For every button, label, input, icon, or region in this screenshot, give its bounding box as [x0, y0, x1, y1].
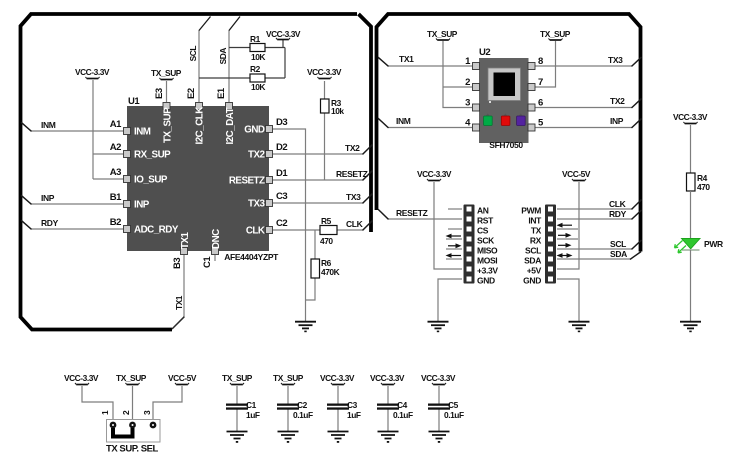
- svg-text:R1: R1: [250, 34, 261, 44]
- svg-text:TX2: TX2: [248, 150, 266, 161]
- svg-text:SDA: SDA: [218, 48, 228, 65]
- pin C2 CLK: [266, 227, 273, 234]
- wire TX_SUP to E3: [166, 81, 168, 102]
- svg-text:INM: INM: [396, 116, 411, 126]
- svg-text:VCC-3.3V: VCC-3.3V: [417, 169, 452, 179]
- wire header1 GND to ground: [438, 279, 462, 321]
- svg-text:7: 7: [538, 77, 543, 88]
- capacitor C4 0.1uF: [370, 373, 413, 443]
- wire GND D3 to ground: [273, 129, 306, 321]
- svg-text:U1: U1: [128, 96, 140, 107]
- svg-text:470: 470: [320, 236, 333, 246]
- node U2 photodiode window: [488, 68, 521, 103]
- svg-text:D1: D1: [276, 168, 288, 179]
- ground (PWR led): [680, 322, 701, 333]
- wire TX_SUP to U2 pins 2,3: [443, 41, 472, 108]
- svg-text:I2C_CLK: I2C_CLK: [195, 107, 206, 145]
- svg-text:RESETZ: RESETZ: [396, 208, 428, 218]
- svg-text:TX_SUP: TX_SUP: [116, 373, 147, 383]
- svg-text:RESETZ: RESETZ: [336, 169, 368, 179]
- pin 6: [528, 104, 535, 111]
- svg-text:8: 8: [538, 56, 543, 67]
- svg-text:0.1uF: 0.1uF: [444, 410, 464, 420]
- wire INM (blob to U2 pin4): [379, 119, 472, 128]
- svg-text:0.1uF: 0.1uF: [293, 410, 313, 420]
- svg-text:E2: E2: [186, 88, 197, 99]
- pin D2 TX2: [266, 151, 273, 158]
- svg-text:B1: B1: [110, 192, 122, 203]
- pin 7: [528, 84, 535, 91]
- wire TX1 (blob to U2 pin1): [379, 58, 472, 66]
- wire R3 stem VCC to RESETZ net: [324, 81, 326, 180]
- svg-text:C3: C3: [347, 400, 358, 410]
- pin E3 TX_SUP: [163, 103, 170, 110]
- svg-text:SFH7050: SFH7050: [489, 140, 523, 150]
- svg-text:MOSI: MOSI: [477, 256, 497, 266]
- wire RESETZ (U1 D1 to blob): [273, 171, 372, 180]
- svg-text:INP: INP: [610, 116, 624, 126]
- power flag VCC-3.3V (U1 left): [75, 67, 110, 79]
- svg-text:0.1uF: 0.1uF: [393, 410, 413, 420]
- power flag VCC-3.3V (PWR led): [673, 112, 708, 124]
- svg-text:+5V: +5V: [527, 266, 542, 276]
- wire INM (blob to U1 A1): [22, 123, 123, 131]
- svg-text:VCC-3.3V: VCC-3.3V: [370, 373, 405, 383]
- power flag VCC-3.3V (header left): [417, 169, 452, 181]
- svg-text:TX_SUP: TX_SUP: [163, 107, 174, 143]
- wire RESETZ (blob to header RST): [379, 210, 462, 219]
- capacitor C3 1uF: [320, 373, 361, 443]
- wire TX_SUP to jumper pin2: [132, 386, 134, 421]
- capacitor C5 0.1uF: [421, 373, 464, 443]
- pin 4: [473, 124, 480, 131]
- wire TX3 (U1 C3 to blob): [273, 194, 372, 203]
- svg-text:C2: C2: [276, 218, 287, 229]
- jumper TX SUP SEL: [100, 410, 160, 455]
- pin B2 ADC_RDY: [124, 226, 131, 233]
- svg-text:VCC-3.3V: VCC-3.3V: [307, 67, 342, 77]
- svg-text:CS: CS: [477, 226, 489, 236]
- wire INP (blob to U1 B1): [22, 196, 123, 204]
- power flag TX_SUP (U2 left): [427, 29, 458, 40]
- wire R4 to LED: [690, 191, 692, 238]
- svg-text:RX: RX: [530, 236, 542, 246]
- svg-text:VCC-3.3V: VCC-3.3V: [421, 373, 456, 383]
- wire CS stub: [448, 228, 462, 230]
- wire SDA net (blob top to E1): [228, 30, 230, 102]
- power flag VCC-5V: [562, 169, 591, 181]
- wire header2 GND to ground: [557, 279, 579, 321]
- pin B1 INP: [124, 201, 131, 208]
- svg-text:A1: A1: [110, 119, 122, 130]
- svg-text:ADC_RDY: ADC_RDY: [134, 225, 179, 236]
- svg-text:VCC-3.3V: VCC-3.3V: [266, 29, 301, 39]
- op-amp U1 AFE4404 body: [127, 96, 279, 262]
- svg-text:AFE4404YZPT: AFE4404YZPT: [224, 252, 279, 262]
- pin A1 INM: [124, 128, 131, 135]
- svg-text:INM: INM: [41, 120, 56, 130]
- svg-text:A2: A2: [110, 142, 121, 153]
- wire RDY (blob to U1 B2): [22, 221, 123, 229]
- wire CLK (header PWM to blob): [557, 200, 641, 209]
- op-amp U1 pins and labels: [110, 87, 289, 269]
- svg-text:TX SUP. SEL: TX SUP. SEL: [106, 444, 159, 455]
- wire SCL net (blob top to E2): [199, 17, 211, 103]
- power flag TX_SUP (jumper): [116, 373, 147, 385]
- svg-text:C2: C2: [297, 400, 308, 410]
- svg-text:470K: 470K: [321, 267, 340, 277]
- svg-text:TX1: TX1: [174, 295, 184, 310]
- pin A2 RX_SUP: [124, 151, 131, 158]
- wire SCK stub with arrow: [446, 238, 462, 240]
- svg-text:U2: U2: [479, 47, 490, 58]
- svg-text:C1: C1: [202, 256, 213, 268]
- svg-text:RDY: RDY: [41, 218, 59, 228]
- svg-text:CLK: CLK: [609, 199, 627, 209]
- pin D3 GND: [266, 126, 273, 133]
- svg-text:TX: TX: [531, 226, 542, 236]
- svg-text:CLK: CLK: [246, 226, 265, 237]
- svg-text:RDY: RDY: [609, 209, 627, 219]
- svg-text:C3: C3: [276, 191, 287, 202]
- connector header mikroBUS right: [521, 205, 556, 286]
- svg-text:TX2: TX2: [345, 143, 360, 153]
- svg-text:VCC-5V: VCC-5V: [168, 373, 197, 383]
- wire TX2 (U1 D2 to blob): [273, 145, 372, 154]
- wire VCC-3.3V to header +3.3V: [434, 182, 462, 269]
- svg-text:INP: INP: [41, 193, 55, 203]
- svg-text:GND: GND: [477, 276, 495, 286]
- wire R2 to SCL: [199, 77, 285, 79]
- svg-text:MISO: MISO: [477, 246, 498, 256]
- svg-text:VCC-3.3V: VCC-3.3V: [673, 112, 708, 122]
- capacitor C2 0.1uF: [273, 373, 313, 443]
- power flag VCC-3.3V (above R3): [307, 67, 342, 79]
- diode green LED in U2: [484, 114, 493, 126]
- pin 2: [473, 84, 480, 91]
- svg-text:TX1: TX1: [399, 54, 414, 64]
- wire TX3 (U2 pin8 to blob): [535, 58, 641, 67]
- svg-text:GND: GND: [244, 125, 265, 136]
- svg-text:10k: 10k: [331, 106, 344, 116]
- wire SCL (header to blob) with arrow: [557, 239, 642, 249]
- svg-text:470: 470: [697, 182, 710, 192]
- pin D1 RESETZ: [266, 177, 273, 184]
- node right bus blob: [377, 14, 641, 252]
- node left bus blob: [21, 14, 372, 330]
- pin 5: [528, 124, 535, 131]
- wire AN stub: [448, 208, 462, 210]
- svg-text:TX_SUP: TX_SUP: [151, 68, 182, 78]
- svg-text:TX_SUP: TX_SUP: [273, 373, 304, 383]
- svg-text:D3: D3: [276, 117, 287, 128]
- svg-text:B2: B2: [110, 217, 121, 228]
- power flag VCC-5V (jumper): [168, 373, 197, 385]
- wire RDY (header INT to blob): [557, 211, 641, 220]
- svg-text:TX1: TX1: [180, 231, 191, 249]
- svg-text:R5: R5: [321, 216, 332, 226]
- svg-text:SCK: SCK: [477, 236, 495, 246]
- resistor R1 10K: [250, 34, 265, 62]
- svg-text:TX3: TX3: [346, 192, 361, 202]
- svg-text:SCL: SCL: [188, 46, 198, 62]
- svg-text:B3: B3: [172, 258, 183, 269]
- ground (below U1): [295, 322, 316, 333]
- diode red LED in U2: [501, 114, 510, 126]
- diode PWR LED: [675, 239, 723, 253]
- svg-text:10K: 10K: [251, 82, 265, 92]
- pin 3: [473, 104, 480, 111]
- svg-text:INT: INT: [528, 216, 542, 226]
- wire RX stub with arrow: [557, 238, 578, 240]
- svg-text:VCC-5V: VCC-5V: [562, 169, 591, 179]
- wire TX_SUP to U2 pin 7: [535, 41, 556, 87]
- svg-text:SCL: SCL: [525, 246, 541, 256]
- wire TX stub with arrow: [557, 228, 578, 230]
- svg-text:C4: C4: [397, 400, 408, 410]
- svg-text:I2C_DAT: I2C_DAT: [225, 107, 236, 144]
- power flag VCC-3.3V (jumper): [64, 373, 99, 385]
- svg-text:IO_SUP: IO_SUP: [134, 175, 168, 186]
- svg-text:E3: E3: [154, 88, 165, 99]
- svg-text:2: 2: [465, 77, 470, 88]
- svg-text:TX_SUP: TX_SUP: [427, 29, 458, 39]
- svg-text:CLK: CLK: [346, 219, 364, 229]
- svg-text:INP: INP: [134, 200, 150, 211]
- svg-text:A3: A3: [110, 167, 121, 178]
- pin B3 TX1: [181, 248, 188, 255]
- svg-text:1uF: 1uF: [246, 410, 260, 420]
- wire R6 from CLK net to ground: [306, 230, 316, 300]
- svg-text:+3.3V: +3.3V: [477, 266, 498, 276]
- svg-text:GND: GND: [523, 276, 541, 286]
- svg-text:10K: 10K: [251, 52, 265, 62]
- diode purple LED in U2: [517, 114, 526, 126]
- wire TX2 (U2 pin6 to blob): [535, 99, 641, 108]
- svg-text:SCL: SCL: [610, 239, 626, 249]
- wire CLK (U1 C2 via R5 to blob): [273, 221, 372, 230]
- connector header mikroBUS left: [464, 205, 499, 286]
- resistor R5 470: [320, 216, 337, 246]
- resistor R6 470K: [311, 258, 340, 278]
- svg-text:D2: D2: [276, 142, 287, 153]
- power flag TX_SUP (above E3): [151, 68, 182, 80]
- svg-text:PWM: PWM: [521, 206, 541, 216]
- svg-text:TX3: TX3: [608, 55, 623, 65]
- pin 1: [473, 63, 480, 70]
- svg-text:PWR: PWR: [704, 239, 723, 249]
- power flag TX_SUP (U2 right): [540, 29, 571, 40]
- svg-text:E1: E1: [216, 87, 227, 99]
- svg-text:6: 6: [538, 98, 543, 109]
- pin A3 IO_SUP: [124, 176, 131, 183]
- wire VCC-5V to jumper pin3: [153, 386, 182, 421]
- power flag VCC-3.3V (above R1): [266, 29, 301, 40]
- svg-text:RX_SUP: RX_SUP: [134, 150, 171, 161]
- svg-text:TX_SUP: TX_SUP: [540, 29, 571, 39]
- transistor U2 SFH7050 body: [479, 47, 529, 150]
- wire SDA (header to blob) with arrow: [557, 249, 642, 259]
- resistor R4 470: [687, 173, 711, 192]
- ground (header right): [569, 322, 590, 333]
- svg-text:TX_SUP: TX_SUP: [222, 373, 253, 383]
- svg-text:VCC-3.3V: VCC-3.3V: [320, 373, 355, 383]
- svg-text:1uF: 1uF: [347, 410, 361, 420]
- wire R1 to SDA and VCC: [229, 40, 285, 78]
- svg-text:TX3: TX3: [248, 199, 266, 210]
- resistor R3 10k: [321, 98, 345, 116]
- svg-text:RST: RST: [477, 216, 494, 226]
- capacitor C1 1uF: [222, 373, 260, 443]
- wire LED to ground: [690, 250, 692, 321]
- pin E2 I2C_CLK: [196, 103, 203, 110]
- svg-text:TX2: TX2: [610, 96, 625, 106]
- svg-text:INM: INM: [134, 127, 151, 138]
- svg-text:AN: AN: [477, 206, 489, 216]
- wire VCC-3.3V to jumper pin1: [82, 386, 113, 421]
- svg-text:SDA: SDA: [524, 256, 541, 266]
- ground (header left): [428, 322, 449, 333]
- svg-text:C1: C1: [246, 400, 257, 410]
- wire VCC-3.3V to A2 A3: [93, 80, 123, 179]
- pin C3 TX3: [266, 200, 273, 207]
- resistor R2 10K: [250, 64, 265, 92]
- svg-text:R2: R2: [250, 64, 261, 74]
- wire MISO stub with arrow: [446, 248, 462, 250]
- pin 8: [528, 63, 535, 70]
- wire MOSI stub with arrow: [446, 258, 462, 260]
- wire INP (U2 pin5 to blob): [535, 119, 641, 128]
- svg-text:C5: C5: [448, 400, 459, 410]
- svg-text:VCC-3.3V: VCC-3.3V: [75, 67, 110, 77]
- wire TX1 (U1 B3 down to blob): [183, 255, 185, 317]
- U2 pins: [465, 56, 544, 131]
- svg-text:3: 3: [465, 98, 470, 109]
- svg-text:SDA: SDA: [610, 249, 627, 259]
- pin C1 DNC: [212, 248, 219, 255]
- svg-text:DNC: DNC: [211, 229, 222, 249]
- svg-text:RESETZ: RESETZ: [229, 176, 265, 187]
- wire VCC-5V to header +5V: [557, 182, 579, 269]
- svg-text:VCC-3.3V: VCC-3.3V: [64, 373, 99, 383]
- pin E1 I2C_DAT: [226, 103, 233, 110]
- wire VCC-3.3V to R4: [690, 125, 692, 173]
